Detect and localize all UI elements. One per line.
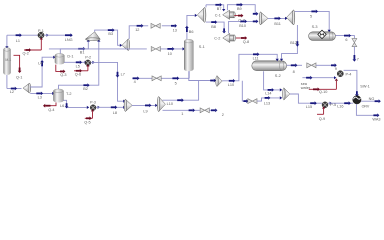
energy stream Q-8 xyxy=(236,37,247,39)
mixer MIX-2 cone vertical xyxy=(85,32,100,39)
svg-text:S-3: S-3 xyxy=(312,25,318,29)
svg-text:9: 9 xyxy=(335,67,337,71)
tee T-3 cone xyxy=(159,97,166,112)
wire B8 line xyxy=(206,22,224,32)
svg-text:1: 1 xyxy=(181,112,183,116)
wire stream 9 line right xyxy=(316,64,331,66)
svg-text:L13: L13 xyxy=(264,101,270,105)
mixer M-6 cone xyxy=(261,12,268,25)
svg-text:P-1: P-1 xyxy=(38,29,44,33)
energy stream Q-2 xyxy=(24,49,41,51)
wire NG line xyxy=(361,100,379,102)
pump P-3 xyxy=(90,105,96,111)
energy stream Q-4 xyxy=(45,103,56,106)
svg-text:L5: L5 xyxy=(76,65,80,69)
svg-text:S-2: S-2 xyxy=(275,74,281,78)
energy stream Q-3 xyxy=(56,65,63,72)
svg-text:D-1: D-1 xyxy=(67,54,73,58)
wire stream 8 line xyxy=(287,64,302,66)
wire L14 line xyxy=(264,71,280,90)
valve VLV-7 xyxy=(200,108,209,113)
wire WA3 line xyxy=(356,104,377,115)
svg-text:B11: B11 xyxy=(274,22,280,26)
energy stream Q-7 xyxy=(234,15,243,17)
svg-text:4: 4 xyxy=(134,80,136,84)
svg-text:B10: B10 xyxy=(239,24,246,28)
svg-text:B8: B8 xyxy=(211,25,216,29)
valve VLV-4 vertical xyxy=(352,39,357,47)
wire stream 5 line xyxy=(295,11,329,29)
svg-text:2: 2 xyxy=(222,113,224,117)
wire L1 line xyxy=(7,34,38,36)
column S-1 xyxy=(184,41,193,70)
svg-text:B2: B2 xyxy=(83,87,88,91)
wire L13 branch line xyxy=(242,81,246,101)
wire SW-1 line xyxy=(344,70,357,95)
wire stream 1 line xyxy=(163,109,200,111)
wire stream 13 line xyxy=(162,25,175,27)
vessel M-1 xyxy=(4,49,11,73)
exchanger S-2 xyxy=(252,61,287,71)
svg-text:P-3: P-3 xyxy=(90,100,96,104)
wire column bottoms to M-4 xyxy=(189,71,214,80)
svg-text:Q-8: Q-8 xyxy=(243,40,249,44)
svg-text:L10: L10 xyxy=(228,83,234,87)
wire stream 10 line xyxy=(49,48,129,50)
wire B1 line xyxy=(60,42,88,54)
wire stream 12 line xyxy=(129,26,148,39)
tee T-4 cone xyxy=(197,7,204,22)
wire stream 7 line xyxy=(353,47,355,58)
wire B12 line xyxy=(282,25,298,59)
mixer M-2 cone xyxy=(125,99,132,111)
svg-text:P-4: P-4 xyxy=(346,73,352,77)
wire L10/L11 line xyxy=(222,54,277,81)
svg-text:L4: L4 xyxy=(38,62,42,66)
svg-text:L16: L16 xyxy=(337,104,343,108)
energy stream Q-9 xyxy=(317,113,324,115)
svg-text:B1: B1 xyxy=(80,51,85,55)
svg-text:B9: B9 xyxy=(237,7,242,11)
svg-text:Q-1: Q-1 xyxy=(16,75,22,79)
pump P-1 xyxy=(38,32,44,38)
wire B6 riser xyxy=(187,15,195,39)
svg-text:B7: B7 xyxy=(217,7,222,11)
svg-text:S-1: S-1 xyxy=(199,45,205,49)
compressor C-1 xyxy=(223,10,230,19)
air cooler S-3 xyxy=(309,32,336,41)
wire L4 line xyxy=(30,57,53,87)
svg-text:B3: B3 xyxy=(108,32,113,36)
wire B7 line xyxy=(206,5,224,9)
wire stream 9 line xyxy=(132,104,155,106)
svg-text:Q-10: Q-10 xyxy=(319,90,327,94)
wire L5 line xyxy=(64,61,84,63)
vaporizer ORV xyxy=(353,96,361,104)
drum T-2 xyxy=(54,91,64,102)
svg-text:ORV: ORV xyxy=(362,105,370,109)
valve VLV-6 xyxy=(307,63,316,68)
svg-text:Q-2: Q-2 xyxy=(23,52,29,56)
svg-text:B12: B12 xyxy=(290,41,297,45)
valve VLV-3 xyxy=(152,76,161,81)
wire L16 line xyxy=(328,102,353,104)
svg-text:12: 12 xyxy=(135,28,139,32)
svg-text:P-2: P-2 xyxy=(85,56,91,60)
svg-text:WA3: WA3 xyxy=(372,118,380,122)
svg-text:L15: L15 xyxy=(306,105,312,109)
svg-text:L10: L10 xyxy=(167,102,173,106)
svg-text:SW-1: SW-1 xyxy=(360,85,369,89)
svg-text:13: 13 xyxy=(173,29,177,33)
svg-text:C-1: C-1 xyxy=(215,13,221,17)
compressor C-2 xyxy=(223,33,230,42)
wire B2 line xyxy=(59,42,99,89)
svg-text:Q-5: Q-5 xyxy=(84,121,90,125)
svg-text:NG: NG xyxy=(369,97,375,101)
drum D-1 xyxy=(55,55,64,63)
mixer M-5 cone xyxy=(284,88,290,100)
svg-text:B6: B6 xyxy=(189,30,194,34)
wire L3 line xyxy=(30,92,52,94)
pump P-2 xyxy=(85,60,91,66)
svg-text:L1: L1 xyxy=(16,39,20,43)
wire B10 line xyxy=(229,21,258,33)
svg-text:Q-6: Q-6 xyxy=(75,73,81,77)
svg-text:L14: L14 xyxy=(265,92,271,96)
wire L2 line xyxy=(6,75,8,89)
svg-text:Q-9: Q-9 xyxy=(319,117,325,121)
wire L15 line xyxy=(290,94,322,103)
svg-text:T-2: T-2 xyxy=(66,92,72,96)
tee K-1 cone xyxy=(122,39,128,51)
pump P-5 xyxy=(322,102,328,108)
wire L6 line xyxy=(63,100,86,107)
energy stream Q-1 xyxy=(14,55,20,71)
wire L12 line xyxy=(163,81,199,101)
svg-text:LNG: LNG xyxy=(65,38,73,42)
energy stream Q-5 xyxy=(85,117,93,119)
wire B11 line xyxy=(268,17,285,19)
svg-text:L7: L7 xyxy=(121,72,125,76)
svg-text:L8: L8 xyxy=(113,111,117,115)
svg-text:10: 10 xyxy=(168,52,172,56)
svg-text:L2: L2 xyxy=(10,90,14,94)
svg-text:Q-4: Q-4 xyxy=(48,108,54,112)
svg-text:L11: L11 xyxy=(253,56,259,60)
svg-text:C-2: C-2 xyxy=(214,37,220,41)
svg-text:L3: L3 xyxy=(38,96,42,100)
wire stream 6 line xyxy=(335,36,354,39)
svg-text:M-1: M-1 xyxy=(5,58,11,62)
wire L7 line P-2 outlet xyxy=(91,62,124,101)
svg-text:5: 5 xyxy=(175,81,177,85)
wire stream 2 line xyxy=(209,109,213,111)
valve VLV-5 xyxy=(248,99,257,104)
svg-text:5: 5 xyxy=(310,15,312,19)
svg-text:8: 8 xyxy=(293,70,295,74)
svg-text:6: 6 xyxy=(345,38,347,42)
energy stream Q-6 xyxy=(74,70,88,72)
valve VLV-1 xyxy=(151,23,160,28)
svg-text:Q-3: Q-3 xyxy=(60,73,66,77)
stream LNG line xyxy=(44,34,72,36)
svg-text:7: 7 xyxy=(357,58,359,62)
svg-text:L9: L9 xyxy=(143,110,147,114)
wire B9 line xyxy=(227,5,257,14)
tee E-1 cone xyxy=(23,83,29,93)
wire B3 line xyxy=(95,30,120,45)
valve VLV-2 xyxy=(151,47,160,52)
tee T-5 cone xyxy=(287,10,294,25)
wire sea water line xyxy=(302,77,334,79)
wire L8 line xyxy=(96,106,123,108)
wire stream 4 line xyxy=(132,77,189,79)
svg-text:L6: L6 xyxy=(60,104,64,108)
energy stream Q-10 xyxy=(309,88,337,90)
mixer M-4 cone xyxy=(217,76,222,87)
pump P-4 xyxy=(337,71,343,77)
